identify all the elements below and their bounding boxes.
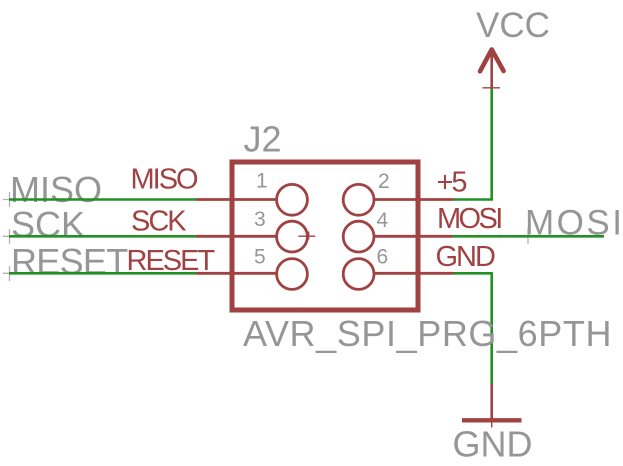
wire +5 to VCC horizontal	[453, 198, 493, 201]
pin 4 line	[374, 235, 453, 238]
pin 2 pad circle	[343, 184, 374, 215]
pin 5 line	[196, 272, 277, 275]
node MOSI label anchor cross	[521, 229, 535, 245]
svg-text:J2: J2	[244, 119, 282, 160]
svg-text:+5: +5	[437, 167, 467, 199]
pin 5 pad circle	[277, 259, 308, 290]
pin 3 pad circle	[277, 221, 308, 252]
pin 3 line	[196, 235, 277, 238]
ground symbol GND	[462, 384, 522, 428]
pin 1 line	[196, 198, 277, 201]
svg-text:SCK: SCK	[131, 206, 187, 238]
node RESET endpoint cross	[3, 266, 16, 281]
wire GND horizontal	[453, 272, 493, 275]
svg-text:GND: GND	[436, 241, 496, 273]
svg-text:MISO: MISO	[131, 164, 199, 196]
pin 6 pad circle	[343, 259, 374, 290]
supply symbol VCC arrow	[480, 50, 504, 89]
svg-text:6: 6	[377, 246, 389, 269]
connector J2 body	[232, 162, 418, 310]
wire MISO	[9, 198, 196, 201]
svg-text:RESET: RESET	[11, 241, 128, 282]
svg-text:SCK: SCK	[11, 204, 85, 245]
svg-text:GND: GND	[453, 424, 533, 465]
wire SCK	[9, 235, 196, 238]
wire MOSI	[453, 235, 604, 238]
svg-text:5: 5	[254, 246, 266, 269]
svg-text:RESET: RESET	[127, 245, 216, 277]
pin 6 line	[374, 272, 454, 275]
pin 4 pad circle	[343, 221, 374, 252]
wire RESET	[9, 272, 196, 275]
pin 1 pad circle	[277, 184, 308, 215]
svg-text:VCC: VCC	[476, 6, 550, 45]
svg-text:1: 1	[256, 170, 268, 193]
svg-text:2: 2	[378, 170, 390, 193]
wire GND vertical	[490, 273, 493, 384]
part origin cross	[298, 232, 315, 240]
node SCK endpoint cross	[3, 229, 16, 244]
wire VCC vertical	[490, 89, 493, 201]
node MISO endpoint cross	[3, 192, 16, 207]
svg-text:3: 3	[254, 208, 266, 231]
svg-text:AVR_SPI_PRG_6PTH: AVR_SPI_PRG_6PTH	[243, 313, 612, 354]
pin 2 line	[374, 198, 454, 201]
svg-text:4: 4	[377, 209, 389, 232]
svg-text:MOSI: MOSI	[437, 203, 501, 235]
